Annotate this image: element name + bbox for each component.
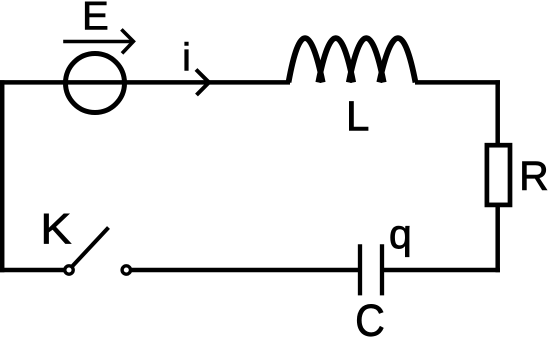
label i — [185, 42, 188, 70]
label E — [85, 2, 107, 30]
wire bottom-left horizontal — [0, 268, 64, 273]
wire right vertical lower — [495, 205, 500, 272]
wire left vertical — [0, 80, 4, 272]
wire right vertical upper — [495, 80, 500, 145]
arrow for E (emf direction) — [63, 29, 133, 53]
wire bottom-middle horizontal — [132, 268, 361, 273]
label L — [349, 102, 368, 131]
capacitor C left plate — [358, 244, 362, 295]
inductor L coil — [289, 38, 416, 82]
arrow for current i — [196, 70, 209, 96]
capacitor C right plate — [380, 244, 384, 295]
wire top-right horizontal — [415, 80, 500, 85]
switch K right contact — [122, 266, 130, 274]
label K — [44, 214, 71, 244]
resistor R body — [487, 145, 510, 205]
label C — [357, 304, 383, 336]
switch K left contact — [65, 266, 73, 274]
label R — [523, 162, 547, 190]
label q — [391, 226, 410, 257]
switch K blade — [73, 228, 109, 267]
wire top-left horizontal — [0, 80, 290, 85]
wire bottom-right horizontal — [382, 268, 500, 273]
source U1 circle — [66, 54, 125, 113]
